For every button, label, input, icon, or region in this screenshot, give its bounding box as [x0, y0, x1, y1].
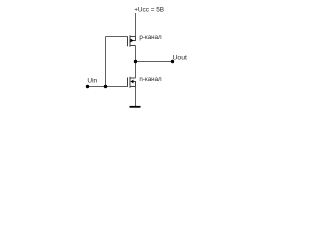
transistor VT2 n-channel substrate arrow (points left): [130, 80, 133, 84]
transistor VT2 n-channel source lead (bottom): [130, 86, 136, 88]
wire gate vertical (input bus): [105, 37, 107, 87]
transistor VT1 p-channel substrate lead with stub to source: [133, 37, 136, 41]
transistor VT1 p-channel source lead (top): [130, 36, 136, 38]
transistor VT2 n-channel gate bar: [127, 78, 129, 87]
node input junction dot: [104, 85, 107, 88]
transistor VT1 p-channel channel bar: [129, 35, 131, 46]
svg-text:n-канал: n-канал: [139, 76, 162, 83]
transistor VT2 n-channel substrate lead with stub to source: [133, 82, 136, 87]
transistor VT1 p-channel drain lead (bottom): [130, 45, 136, 47]
svg-text:+Ucc = 5В: +Ucc = 5В: [134, 7, 164, 14]
transistor VT2 n-channel drain lead (top): [130, 77, 136, 79]
node Uout terminal dot: [171, 60, 174, 63]
transistor VT2 n-channel channel bar: [129, 77, 131, 88]
node Uin terminal dot: [86, 85, 89, 88]
ground bar: [130, 106, 141, 108]
wire PMOS gate lead: [106, 36, 128, 38]
svg-text:p-канал: p-канал: [139, 34, 162, 41]
wire drain node vertical between transistors: [135, 46, 137, 79]
svg-text:Uout: Uout: [173, 55, 187, 62]
node output junction dot: [134, 60, 137, 63]
wire Vcc supply vertical: [135, 13, 137, 37]
transistor VT1 p-channel gate bar: [127, 36, 129, 46]
wire NMOS source to ground: [135, 87, 137, 107]
transistor VT1 p-channel substrate arrow (points right): [131, 39, 134, 43]
svg-text:Uin: Uin: [87, 77, 97, 84]
wire input horizontal Uin to NMOS gate: [88, 86, 128, 88]
wire output horizontal to Uout: [136, 61, 173, 63]
